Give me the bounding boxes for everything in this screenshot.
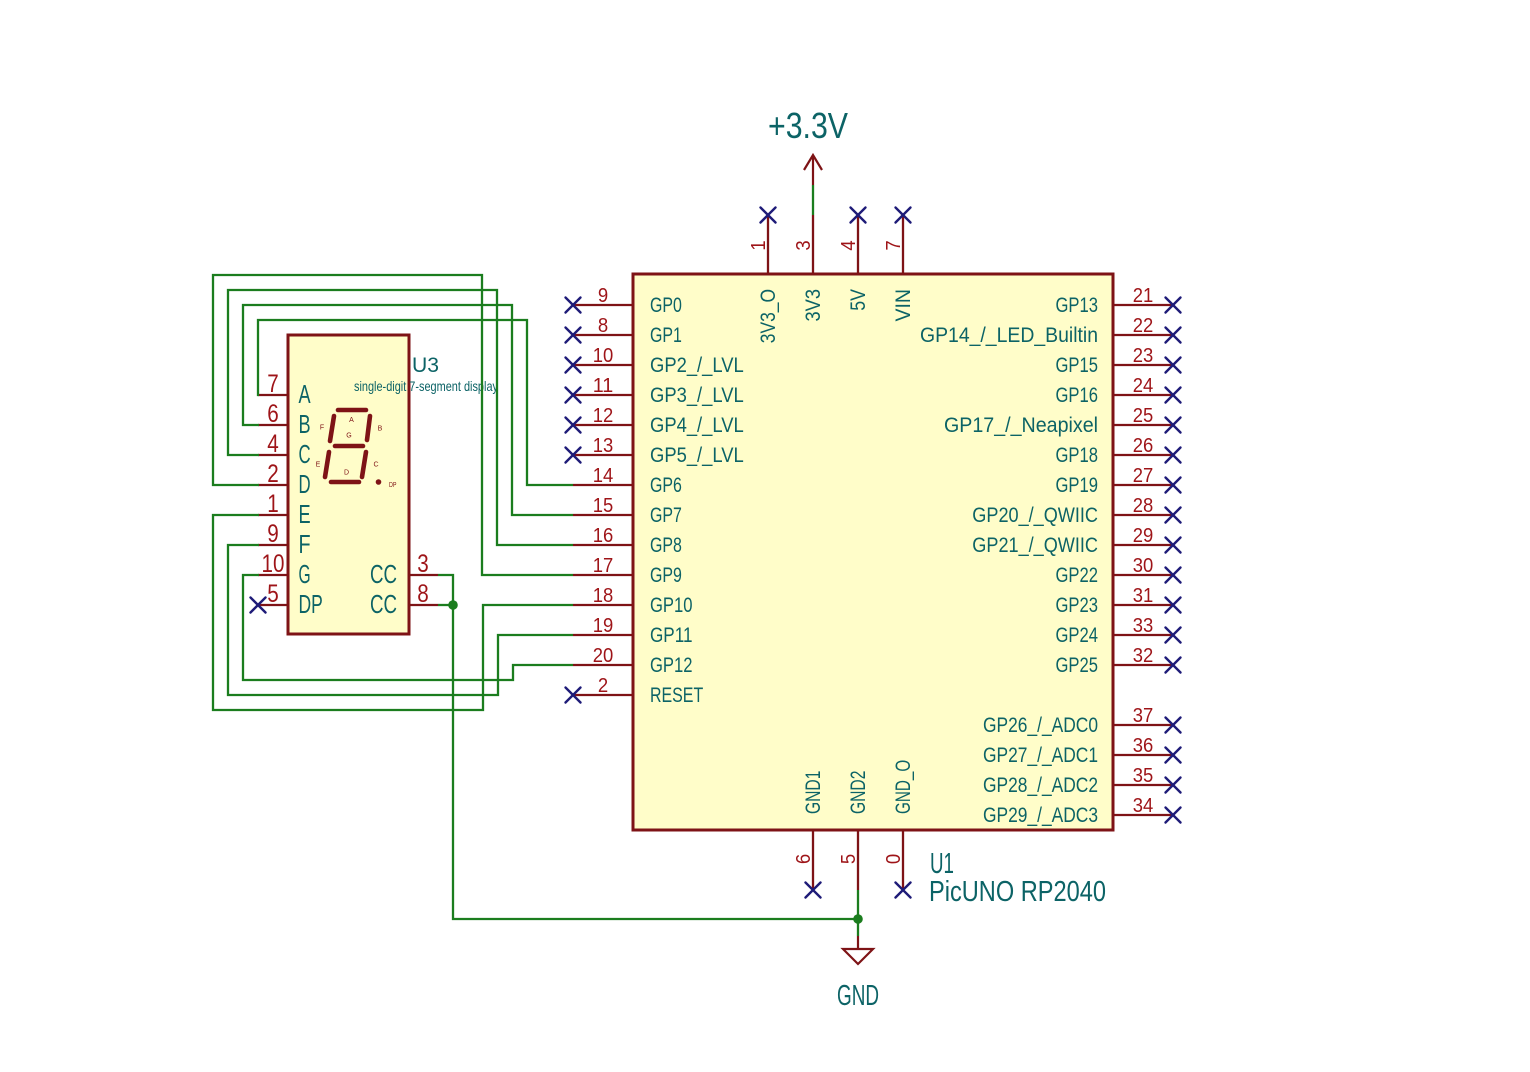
svg-text:GP12: GP12 (650, 654, 693, 677)
wire net E: U3 pin E to U1 GP10 (213, 515, 573, 710)
wire CC pin3 to junction (438, 575, 453, 605)
U3 seven-segment digit glyph (325, 410, 370, 482)
svg-text:GP19: GP19 (1056, 474, 1099, 497)
svg-text:GP20_/_QWIIC: GP20_/_QWIIC (972, 504, 1098, 527)
U1 pin 31 GP23 (right) (1056, 585, 1181, 617)
svg-text:30: 30 (1133, 555, 1154, 577)
svg-text:GP16: GP16 (1056, 384, 1099, 407)
svg-text:17: 17 (593, 555, 614, 577)
U3 decimal point dot (376, 479, 382, 485)
svg-text:12: 12 (593, 405, 614, 427)
wire net F: U3 pin F to U1 GP11 (228, 545, 573, 695)
svg-text:23: 23 (1133, 345, 1154, 367)
svg-text:D: D (299, 469, 311, 499)
svg-text:31: 31 (1133, 585, 1154, 607)
svg-text:CC: CC (370, 559, 397, 589)
svg-text:21: 21 (1133, 285, 1154, 307)
power symbol +3.3V (768, 105, 848, 185)
U3 segment labels (316, 417, 397, 489)
U1 pin 3 3V3 (top) (793, 215, 825, 322)
svg-text:GP8: GP8 (650, 534, 682, 557)
U1 pin 1 3V3_O (top) (748, 208, 780, 344)
svg-text:GND_O: GND_O (892, 760, 915, 814)
U3 pin 4 C (258, 431, 311, 469)
U1 pin 15 GP7 (left) (573, 495, 682, 527)
svg-text:GP25: GP25 (1056, 654, 1099, 677)
svg-text:C: C (299, 439, 311, 469)
svg-text:GP7: GP7 (650, 504, 682, 527)
svg-text:3V3: 3V3 (802, 289, 825, 322)
svg-text:GP14_/_LED_Builtin: GP14_/_LED_Builtin (920, 324, 1098, 347)
wire 3V3 pin to +3.3V power (812, 185, 814, 215)
U1 pin 18 GP10 (left) (573, 585, 693, 617)
svg-text:18: 18 (593, 585, 614, 607)
svg-text:3: 3 (793, 240, 815, 250)
U1 pin 14 GP6 (left) (573, 465, 682, 497)
svg-text:GP22: GP22 (1056, 564, 1099, 587)
U1 pin 35 GP28_/_ADC2 (right) (983, 765, 1181, 797)
svg-text:11: 11 (593, 375, 614, 397)
svg-text:GP26_/_ADC0: GP26_/_ADC0 (983, 714, 1098, 737)
U3 pin 2 D (258, 461, 311, 499)
U1 pin 0 GND_O (bottom) (883, 760, 915, 898)
svg-text:CC: CC (370, 589, 397, 619)
svg-text:1: 1 (748, 240, 770, 250)
svg-text:7: 7 (883, 240, 905, 250)
wire net A: U3 pin A to U1 GP6 (258, 320, 573, 485)
svg-text:GP18: GP18 (1056, 444, 1099, 467)
svg-text:9: 9 (267, 521, 279, 548)
svg-text:B: B (299, 409, 311, 439)
svg-text:A: A (299, 379, 312, 409)
svg-text:29: 29 (1133, 525, 1154, 547)
U1 pin 19 GP11 (left) (573, 615, 693, 647)
U1 pin 17 GP9 (left) (573, 555, 682, 587)
svg-text:E: E (299, 499, 311, 529)
svg-text:10: 10 (593, 345, 614, 367)
svg-text:37: 37 (1133, 705, 1154, 727)
U3 pin 6 B (258, 401, 311, 439)
svg-text:single-digit 7-segment display: single-digit 7-segment display (354, 379, 498, 394)
svg-text:26: 26 (1133, 435, 1154, 457)
svg-text:GND: GND (837, 979, 879, 1011)
svg-text:36: 36 (1133, 735, 1154, 757)
svg-text:2: 2 (598, 675, 608, 697)
svg-text:0: 0 (883, 854, 905, 864)
U1 pin 28 GP20_/_QWIIC (right) (972, 495, 1180, 527)
U1 pin 32 GP25 (right) (1056, 645, 1181, 677)
U1 pin 20 GP12 (left) (573, 645, 693, 677)
U1 pin 8 GP1 (left) (566, 315, 682, 347)
svg-text:VIN: VIN (892, 289, 915, 322)
svg-text:8: 8 (417, 581, 429, 608)
svg-text:35: 35 (1133, 765, 1154, 787)
svg-text:B: B (378, 426, 383, 433)
U1 pin 33 GP24 (right) (1056, 615, 1181, 647)
wire CC pin8 to junction (438, 604, 453, 606)
svg-text:19: 19 (593, 615, 614, 637)
svg-text:F: F (299, 529, 311, 559)
svg-text:22: 22 (1133, 315, 1154, 337)
svg-text:G: G (346, 433, 351, 440)
IC U1 PicUNO RP2040 body (633, 274, 1113, 830)
svg-text:27: 27 (1133, 465, 1154, 487)
svg-text:5: 5 (267, 581, 279, 608)
svg-text:GP5_/_LVL: GP5_/_LVL (650, 444, 744, 467)
svg-text:6: 6 (267, 401, 279, 428)
svg-text:2: 2 (267, 461, 279, 488)
svg-text:7: 7 (267, 371, 279, 398)
svg-text:+3.3V: +3.3V (768, 105, 848, 146)
U3 pin 5 DP (251, 581, 323, 619)
svg-text:6: 6 (793, 854, 815, 864)
U1 pin 21 GP13 (right) (1056, 285, 1181, 317)
U1 pin 5 GND2 (bottom) (838, 771, 870, 890)
svg-text:20: 20 (593, 645, 614, 667)
U1 pin 10 GP2_/_LVL (left) (566, 345, 744, 377)
U3 pin 3 CC (370, 551, 438, 589)
U1 pin 27 GP19 (right) (1056, 465, 1181, 497)
U1 pin 30 GP22 (right) (1056, 555, 1181, 587)
svg-text:GP24: GP24 (1056, 624, 1099, 647)
svg-text:GP15: GP15 (1056, 354, 1099, 377)
svg-text:GND1: GND1 (802, 771, 825, 814)
svg-text:GP17_/_Neapixel: GP17_/_Neapixel (944, 414, 1098, 437)
svg-text:D: D (344, 470, 349, 477)
svg-text:GP2_/_LVL: GP2_/_LVL (650, 354, 744, 377)
svg-text:9: 9 (598, 285, 608, 307)
svg-text:GP1: GP1 (650, 324, 682, 347)
svg-text:33: 33 (1133, 615, 1154, 637)
U1 pin 13 GP5_/_LVL (left) (566, 435, 744, 467)
junction at CC pins (448, 600, 458, 610)
svg-text:3: 3 (417, 551, 429, 578)
svg-text:14: 14 (593, 465, 614, 487)
svg-text:GP27_/_ADC1: GP27_/_ADC1 (983, 744, 1098, 767)
svg-text:28: 28 (1133, 495, 1154, 517)
svg-text:34: 34 (1133, 795, 1154, 817)
svg-text:GP9: GP9 (650, 564, 682, 587)
svg-text:GP10: GP10 (650, 594, 693, 617)
svg-text:GP23: GP23 (1056, 594, 1099, 617)
svg-text:DP: DP (389, 482, 397, 489)
svg-text:E: E (316, 462, 321, 469)
U3 pin 1 E (258, 491, 311, 529)
U1 pin 37 GP26_/_ADC0 (right) (983, 705, 1181, 737)
svg-text:G: G (299, 559, 311, 589)
svg-text:GP13: GP13 (1056, 294, 1099, 317)
svg-text:GP21_/_QWIIC: GP21_/_QWIIC (972, 534, 1098, 557)
U1 pin 34 GP29_/_ADC3 (right) (983, 795, 1181, 827)
U3 pin 7 A (258, 371, 311, 409)
svg-text:4: 4 (838, 240, 860, 250)
svg-text:10: 10 (262, 551, 285, 578)
svg-text:8: 8 (598, 315, 608, 337)
wire GND net: junction to GND2 and ground (453, 605, 858, 936)
U1 pin 24 GP16 (right) (1056, 375, 1181, 407)
svg-text:GP0: GP0 (650, 294, 682, 317)
svg-text:1: 1 (267, 491, 279, 518)
U1 pin 12 GP4_/_LVL (left) (566, 405, 744, 437)
U1 pin 23 GP15 (right) (1056, 345, 1181, 377)
U1 pin 16 GP8 (left) (573, 525, 682, 557)
svg-text:C: C (373, 462, 378, 469)
svg-text:GP28_/_ADC2: GP28_/_ADC2 (983, 774, 1098, 797)
svg-text:GP6: GP6 (650, 474, 682, 497)
U1 pin 22 GP14_/_LED_Builtin (right) (920, 315, 1181, 347)
U1 pin 36 GP27_/_ADC1 (right) (983, 735, 1181, 767)
svg-text:GND2: GND2 (847, 771, 870, 814)
svg-text:GP11: GP11 (650, 624, 693, 647)
U3 pin 8 CC (370, 581, 438, 619)
ground symbol GND (837, 936, 879, 1011)
svg-text:GP4_/_LVL: GP4_/_LVL (650, 414, 744, 437)
svg-text:24: 24 (1133, 375, 1154, 397)
svg-text:25: 25 (1133, 405, 1154, 427)
U3 pin 9 F (258, 521, 311, 559)
wire net B: U3 pin B to U1 GP7 (243, 305, 573, 515)
svg-text:32: 32 (1133, 645, 1154, 667)
svg-text:3V3_O: 3V3_O (757, 289, 780, 343)
U1 pin 11 GP3_/_LVL (left) (566, 375, 744, 407)
U1 pin 4 5V (top) (838, 208, 870, 311)
svg-text:U3: U3 (412, 352, 439, 377)
wire net G: U3 pin G to U1 GP12 (243, 575, 573, 680)
svg-text:GP3_/_LVL: GP3_/_LVL (650, 384, 744, 407)
svg-text:5: 5 (838, 854, 860, 864)
svg-text:15: 15 (593, 495, 614, 517)
U1 pin 25 GP17_/_Neapixel (right) (944, 405, 1181, 437)
U3 pin 10 G (258, 551, 311, 589)
U1 pin 29 GP21_/_QWIIC (right) (972, 525, 1180, 557)
wire net C: U3 pin C to U1 GP8 (228, 290, 573, 545)
svg-text:5V: 5V (847, 289, 870, 311)
svg-text:DP: DP (299, 589, 323, 619)
display U3 body (288, 335, 409, 634)
svg-text:F: F (320, 425, 324, 432)
wire net D: U3 pin D to U1 GP9 (213, 275, 573, 575)
svg-text:A: A (349, 417, 354, 424)
svg-text:PicUNO RP2040: PicUNO RP2040 (929, 875, 1106, 907)
svg-text:16: 16 (593, 525, 614, 547)
U1 pin 9 GP0 (left) (566, 285, 682, 317)
svg-text:RESET: RESET (650, 684, 703, 707)
U1 pin 26 GP18 (right) (1056, 435, 1181, 467)
U1 pin 2 RESET (left) (566, 675, 704, 707)
svg-text:4: 4 (267, 431, 279, 458)
junction at GND2 (853, 914, 863, 924)
svg-text:GP29_/_ADC3: GP29_/_ADC3 (983, 804, 1098, 827)
U1 pin 7 VIN (top) (883, 208, 915, 322)
svg-text:13: 13 (593, 435, 614, 457)
U1 pin 6 GND1 (bottom) (793, 771, 825, 898)
